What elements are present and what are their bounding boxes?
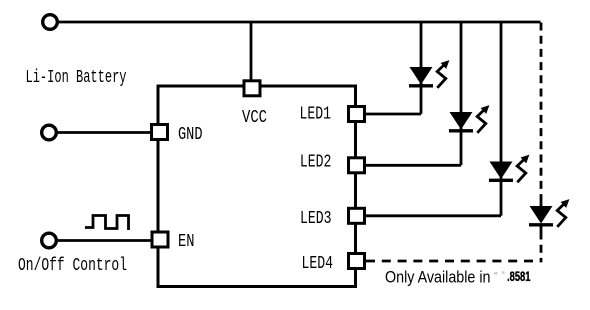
wire LED3 pin to diode bbox=[366, 214, 501, 217]
wire EN to pin bbox=[57, 239, 152, 242]
wire LED1 pin to diode bbox=[366, 113, 421, 116]
svg-text:EN: EN bbox=[178, 232, 195, 252]
wire LED4 pin horizontal (dashed) bbox=[366, 260, 536, 263]
node EN terminal circle bbox=[42, 233, 57, 248]
square wave symbol on EN input bbox=[85, 216, 129, 231]
svg-text:LED3: LED3 bbox=[300, 209, 332, 229]
LED D3 bbox=[489, 155, 529, 183]
svg-text:.8581: .8581 bbox=[507, 269, 531, 284]
wire LED4 cathode vertical (dashed) bbox=[540, 232, 541, 263]
wire LED2 pin to diode bbox=[366, 164, 461, 167]
LED D4 (dashed branch) bbox=[529, 198, 569, 232]
node VBAT terminal circle bbox=[43, 15, 58, 30]
pin LED2 square bbox=[349, 158, 365, 173]
svg-text:LED1: LED1 bbox=[300, 105, 332, 125]
pin VCC square bbox=[244, 81, 260, 96]
svg-text:Only Available in: Only Available in bbox=[385, 268, 491, 287]
wire LED4 anode vertical (dashed) bbox=[540, 23, 543, 200]
svg-text:LED4: LED4 bbox=[302, 254, 334, 274]
IC U1 body bbox=[158, 86, 356, 287]
svg-text:Li-Ion Battery: Li-Ion Battery bbox=[26, 68, 127, 88]
wire LED1 anode vertical bbox=[420, 22, 423, 114]
LED D1 bbox=[409, 60, 449, 88]
svg-text:VCC: VCC bbox=[242, 108, 267, 128]
wire GND to pin bbox=[57, 131, 152, 134]
svg-text:On/Off Control: On/Off Control bbox=[18, 256, 127, 276]
pin EN square bbox=[152, 232, 168, 247]
svg-text:LED2: LED2 bbox=[300, 153, 332, 173]
pin LED3 square bbox=[349, 208, 365, 223]
faint erased marks bbox=[494, 272, 498, 275]
wire LED2 anode vertical bbox=[460, 22, 463, 165]
LED D2 bbox=[449, 105, 489, 133]
pin LED1 square bbox=[349, 107, 365, 122]
wire VCC drop from top rail bbox=[250, 22, 253, 80]
wire VBAT top rail bbox=[58, 21, 541, 24]
wire LED3 anode vertical bbox=[500, 22, 503, 216]
node GND terminal circle bbox=[42, 125, 57, 140]
pin LED4 square bbox=[349, 254, 365, 269]
pin GND square bbox=[152, 125, 168, 140]
svg-text:GND: GND bbox=[178, 125, 203, 145]
